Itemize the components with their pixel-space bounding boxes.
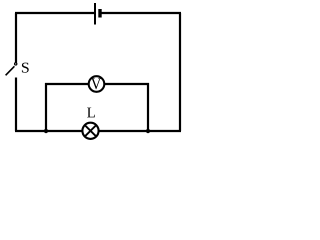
wire top-left (battery left lead): [15, 12, 95, 14]
battery cell: [95, 3, 100, 25]
voltmeter V: [89, 76, 105, 92]
wire bottom-left (to lamp): [15, 130, 82, 132]
wire left lower: [15, 78, 17, 132]
wire voltmeter branch right vertical: [147, 83, 149, 131]
wire voltmeter branch right horizontal: [105, 83, 150, 85]
wire voltmeter branch left horizontal: [45, 83, 89, 85]
switch S: [6, 63, 17, 76]
wire right side: [179, 13, 181, 131]
wire voltmeter branch left vertical: [45, 83, 47, 131]
node junction right: [146, 129, 150, 133]
lamp L: [82, 123, 98, 139]
label S: [22, 63, 29, 73]
wire top-right (battery right lead): [100, 12, 181, 14]
node junction left: [44, 129, 48, 133]
wire left upper: [15, 13, 17, 63]
label L: [87, 108, 95, 118]
wire bottom-right (from lamp): [100, 130, 182, 132]
